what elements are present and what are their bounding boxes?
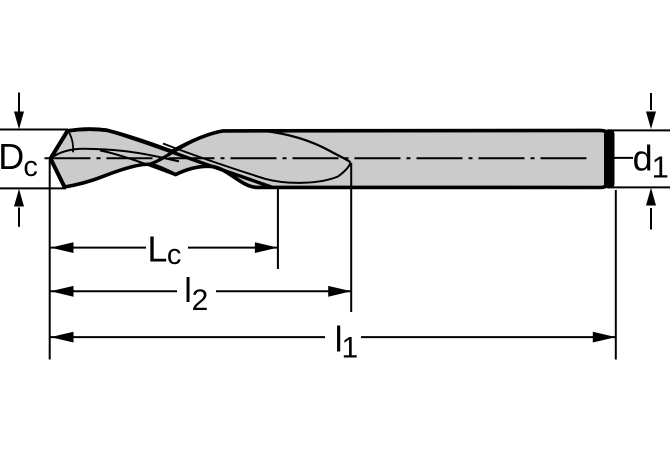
svg-text:d: d <box>633 138 653 179</box>
d1 extension line top-right <box>611 129 670 131</box>
drill body silhouette <box>51 129 611 187</box>
Lc dimension line <box>51 247 147 249</box>
extension line at flute length end <box>277 187 279 269</box>
d1 arrow up <box>650 208 652 230</box>
Dc extension line bottom-left <box>0 187 66 189</box>
lip curve from tip <box>51 149 180 162</box>
Dc arrow up <box>18 208 20 227</box>
top arch emphasis <box>68 129 108 131</box>
extension line at shank end <box>615 190 617 360</box>
extension line at l2 end <box>350 163 352 312</box>
l1 dimension line <box>51 336 326 338</box>
centerline dash-dot <box>45 157 592 159</box>
flute curve A (descending helix edge) <box>107 130 271 187</box>
svg-text:D: D <box>0 136 24 177</box>
d1 arrow down <box>650 93 652 110</box>
svg-text:c: c <box>23 151 38 183</box>
svg-text:1: 1 <box>652 150 669 185</box>
point facet line <box>69 133 73 153</box>
shank end dark band <box>604 129 615 188</box>
flute end lens top curve <box>262 131 351 163</box>
extension line at drill tip <box>49 160 51 360</box>
Dc arrow down <box>18 93 20 114</box>
svg-text:1: 1 <box>342 332 359 365</box>
Dc extension line top-left <box>0 129 68 131</box>
svg-text:L: L <box>147 229 167 270</box>
centerline stub to d1 label <box>612 157 633 159</box>
svg-text:2: 2 <box>192 284 209 317</box>
tip cone edge emphasis <box>51 131 68 187</box>
svg-text:c: c <box>167 239 182 271</box>
l2 dimension line <box>51 290 178 292</box>
flute curve B (ascending helix edge) <box>149 131 224 165</box>
inner flute edge line <box>100 150 174 174</box>
d1 extension line bottom-right <box>611 186 670 188</box>
flute face companion line <box>163 144 351 183</box>
